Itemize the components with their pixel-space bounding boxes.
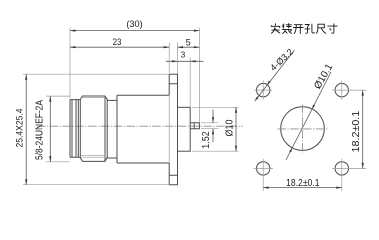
dimension (30) bbox=[70, 19, 199, 32]
main body bbox=[117, 95, 169, 163]
extension line pin end bbox=[198, 28, 200, 123]
centerline bbox=[37, 125, 243, 127]
dimension 5/8-24UNEF-2A thread bbox=[35, 96, 71, 162]
extension line rear body end bbox=[189, 58, 191, 107]
dimension dia 10 rear body bbox=[192, 107, 239, 151]
dimension 5 bbox=[178, 37, 200, 48]
rear body dia 10 bbox=[178, 107, 191, 151]
dimension 23 bbox=[70, 37, 169, 48]
flange (square, side view) bbox=[169, 74, 177, 185]
dimension 25.4X25.4 bbox=[14, 74, 169, 185]
char Cun bbox=[328, 24, 337, 33]
char Zhuang bbox=[282, 24, 291, 34]
terminal pin bbox=[190, 123, 199, 129]
corner hole bottom-left bbox=[254, 159, 273, 191]
corner hole top-left bbox=[254, 80, 272, 99]
coupling nut (knurled) bbox=[80, 96, 107, 161]
front cap (mating face rings) bbox=[70, 100, 80, 158]
corner hole bottom-right bbox=[332, 159, 366, 191]
dimension 3 bbox=[166, 50, 204, 63]
svg-text:1.52: 1.52 bbox=[201, 131, 212, 149]
svg-text:25.4X25.4: 25.4X25.4 bbox=[14, 108, 25, 148]
dimension 18.2 horizontal bbox=[263, 177, 342, 189]
extension line flange left bbox=[168, 43, 170, 74]
svg-text:Ø10: Ø10 bbox=[223, 119, 235, 136]
svg-text:23: 23 bbox=[113, 37, 122, 47]
char Chi bbox=[316, 24, 325, 33]
char An bbox=[271, 24, 280, 34]
extension line flange right bbox=[177, 43, 179, 74]
svg-text:4-Ø3.2: 4-Ø3.2 bbox=[268, 47, 295, 73]
corner hole top-right bbox=[332, 80, 366, 99]
leader 4-dia3.2 bbox=[255, 47, 296, 102]
svg-text:18.2±0.1: 18.2±0.1 bbox=[351, 111, 362, 153]
view centerlines bbox=[278, 105, 328, 154]
neck groove bbox=[107, 100, 117, 158]
svg-text:(30): (30) bbox=[126, 19, 142, 29]
dimension 1.52 pin bbox=[201, 110, 219, 149]
dimension 18.2 vertical bbox=[351, 90, 364, 168]
char Kong bbox=[305, 24, 315, 33]
leader dia 10.1 bbox=[286, 62, 336, 160]
svg-text:18.2±0.1: 18.2±0.1 bbox=[286, 177, 320, 189]
extension line mating face bbox=[69, 28, 71, 99]
svg-text:Ø10.1: Ø10.1 bbox=[312, 62, 335, 91]
svg-text:3: 3 bbox=[181, 50, 186, 60]
char Kai bbox=[294, 25, 304, 34]
svg-text:5: 5 bbox=[186, 37, 191, 47]
svg-text:5/8-24UNEF-2A: 5/8-24UNEF-2A bbox=[35, 100, 46, 160]
center hole circle dia 10.1 bbox=[281, 107, 325, 151]
